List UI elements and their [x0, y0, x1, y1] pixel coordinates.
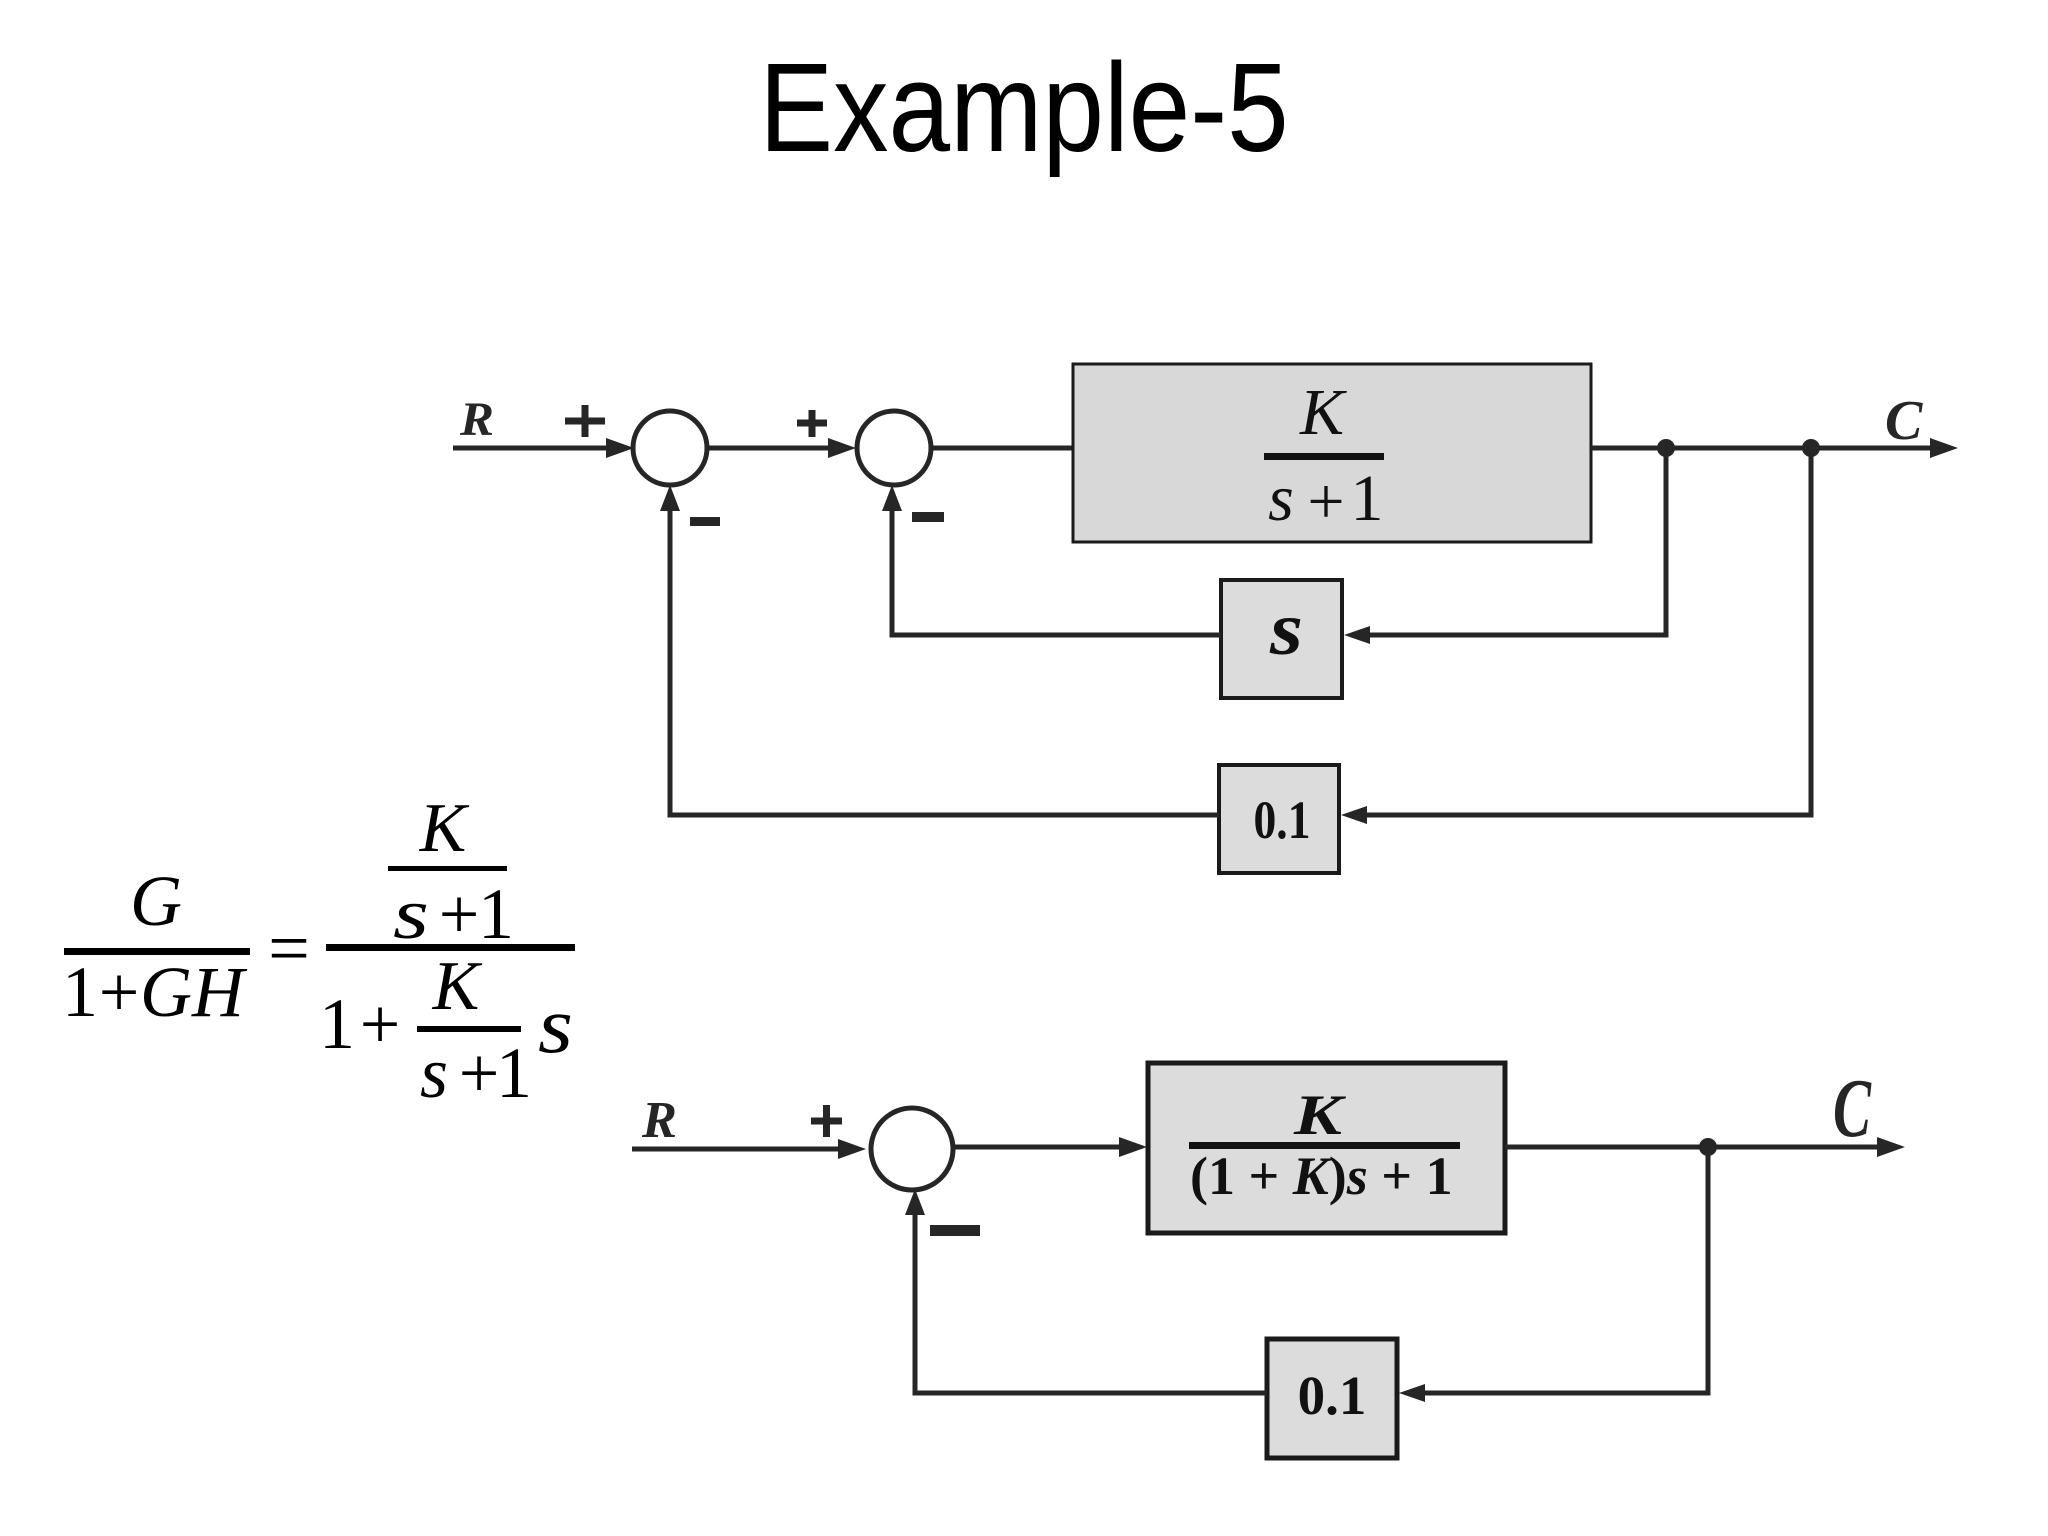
junction node J2: [1802, 439, 1820, 457]
svg-text:s: s: [1268, 462, 1294, 535]
wire S3 to block G2: [954, 1145, 1136, 1150]
svg-text:1: 1: [62, 952, 98, 1032]
equation: left fraction G over 1+GH: [62, 861, 250, 1032]
minus sign at S2: [912, 512, 944, 522]
block G2 K/((1+K)s+1): [1148, 1063, 1505, 1233]
wire S2 to block G1: [931, 446, 1073, 451]
svg-text:0.1: 0.1: [1298, 1365, 1367, 1426]
wire 0.1 block to S3 (bottom): [915, 1198, 1267, 1393]
svg-text:1: 1: [319, 984, 355, 1064]
wire J2 down to 0.1 feedback line: [1353, 448, 1811, 815]
svg-text:C: C: [1885, 390, 1923, 452]
equation: denominator 1 + K/(s+1) s: [319, 948, 573, 1113]
wire G2 to output C: [1505, 1145, 1894, 1150]
wire J1 down to s feedback line: [1356, 448, 1666, 635]
svg-text:s: s: [1269, 587, 1303, 671]
summing junction S1: [633, 411, 707, 485]
wire G1 to output C: [1591, 446, 1948, 451]
wire 0.1 block to S1: [670, 494, 1219, 815]
svg-text:+: +: [99, 952, 140, 1032]
summing junction S2: [857, 411, 931, 485]
svg-text:=: =: [268, 908, 310, 990]
equation: right numerator K over s+1: [388, 790, 514, 954]
equation: main fraction bar: [326, 944, 575, 951]
block H3 0.1 (bottom): [1267, 1339, 1397, 1458]
wire J3 down to 0.1 feedback line (bottom): [1409, 1147, 1708, 1393]
svg-text:K: K: [1299, 376, 1347, 449]
svg-text:C: C: [1833, 1062, 1872, 1155]
svg-text:+: +: [360, 984, 401, 1064]
svg-text:1: 1: [1351, 462, 1384, 535]
block G1 K/(s+1): [1073, 364, 1591, 542]
svg-text:1: 1: [478, 874, 514, 954]
junction node J3: [1699, 1138, 1717, 1156]
svg-text:0.1: 0.1: [1254, 790, 1311, 850]
svg-text:K: K: [419, 790, 470, 867]
wire s block to S2: [892, 494, 1221, 635]
svg-text:s: s: [538, 982, 573, 1070]
svg-text:(1 + K)s + 1: (1 + K)s + 1: [1190, 1146, 1453, 1206]
title Example-5: [124, 35, 1924, 180]
svg-text:+: +: [439, 874, 480, 954]
block H1 s: [1221, 580, 1342, 698]
svg-text:K: K: [1293, 1084, 1347, 1147]
svg-text:s: s: [393, 874, 429, 954]
block H2 0.1: [1219, 765, 1339, 873]
minus sign at S1: [690, 517, 720, 526]
minus sign at S3: [930, 1225, 980, 1236]
svg-text:R: R: [641, 1092, 677, 1149]
svg-text:GH: GH: [140, 952, 248, 1032]
summing junction S3: [871, 1108, 953, 1190]
junction node J1: [1657, 439, 1675, 457]
svg-text:+: +: [1307, 465, 1344, 538]
plus sign at summing junction S3: [811, 1105, 842, 1137]
svg-text:1: 1: [496, 1033, 532, 1113]
svg-text:R: R: [459, 393, 494, 446]
plus sign at summing junction S2: [797, 410, 827, 437]
wire R input to summing junction S1: [453, 446, 620, 451]
svg-text:s: s: [420, 1033, 448, 1113]
wire S1 to S2: [707, 446, 842, 451]
wire R input to summing junction S3: [632, 1147, 850, 1152]
plus sign at summing junction S1: [565, 405, 605, 437]
svg-text:G: G: [130, 861, 182, 941]
svg-text:K: K: [432, 948, 483, 1025]
svg-text:+: +: [459, 1033, 500, 1113]
